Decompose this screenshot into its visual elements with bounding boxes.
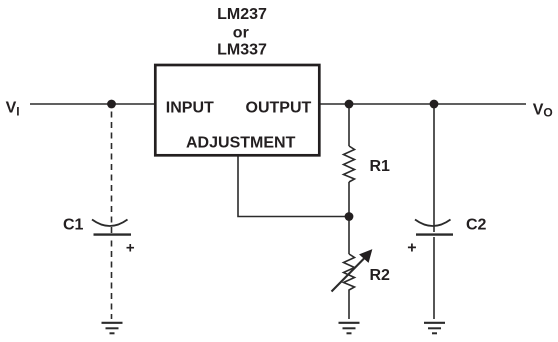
svg-text:+: + <box>126 240 135 257</box>
wire node to R2 <box>348 217 350 255</box>
ground (R2) <box>339 323 360 334</box>
svg-text:INPUT: INPUT <box>166 100 214 117</box>
wire dashed C1 to ground <box>111 241 113 320</box>
wire R1 bottom to node <box>348 182 350 217</box>
wire R2 to ground <box>348 293 350 319</box>
wire dashed C1 branch <box>111 104 113 233</box>
svg-text:R1: R1 <box>370 158 391 175</box>
svg-text:VO: VO <box>533 101 553 119</box>
svg-text:VI: VI <box>6 100 20 119</box>
label LM237 or LM337 <box>217 6 267 59</box>
svg-text:C1: C1 <box>63 217 84 234</box>
capacitor C1 <box>92 220 131 235</box>
svg-text:OUTPUT: OUTPUT <box>246 100 312 117</box>
wire V_I to regulator input <box>30 103 154 105</box>
svg-text:LM337: LM337 <box>217 41 267 58</box>
svg-text:ADJUSTMENT: ADJUSTMENT <box>186 134 296 151</box>
wire C2 to ground <box>433 237 435 319</box>
svg-text:LM237: LM237 <box>217 6 267 23</box>
wire adjustment pin <box>238 155 349 217</box>
node junction output/R1 <box>345 100 354 109</box>
svg-text:+: + <box>407 239 416 256</box>
capacitor C2 <box>415 220 453 235</box>
node junction R1/R2/adjustment <box>345 212 354 221</box>
svg-text:C2: C2 <box>466 217 487 234</box>
svg-text:R2: R2 <box>370 267 391 284</box>
node junction output/C2 <box>430 100 439 109</box>
wire R1 top <box>348 104 350 146</box>
resistor R1 <box>344 146 355 182</box>
resistor R2 <box>344 254 355 293</box>
ground (C1) <box>102 323 123 334</box>
ground (C2) <box>424 323 445 334</box>
R2 wiper arrow <box>332 250 372 292</box>
wire regulator output to V_O <box>320 103 526 105</box>
svg-text:or: or <box>233 24 249 41</box>
node junction V_I/C1 <box>107 100 116 109</box>
regulator U1 box (LM237/LM337) <box>155 65 319 155</box>
wire C2 branch <box>433 104 435 232</box>
